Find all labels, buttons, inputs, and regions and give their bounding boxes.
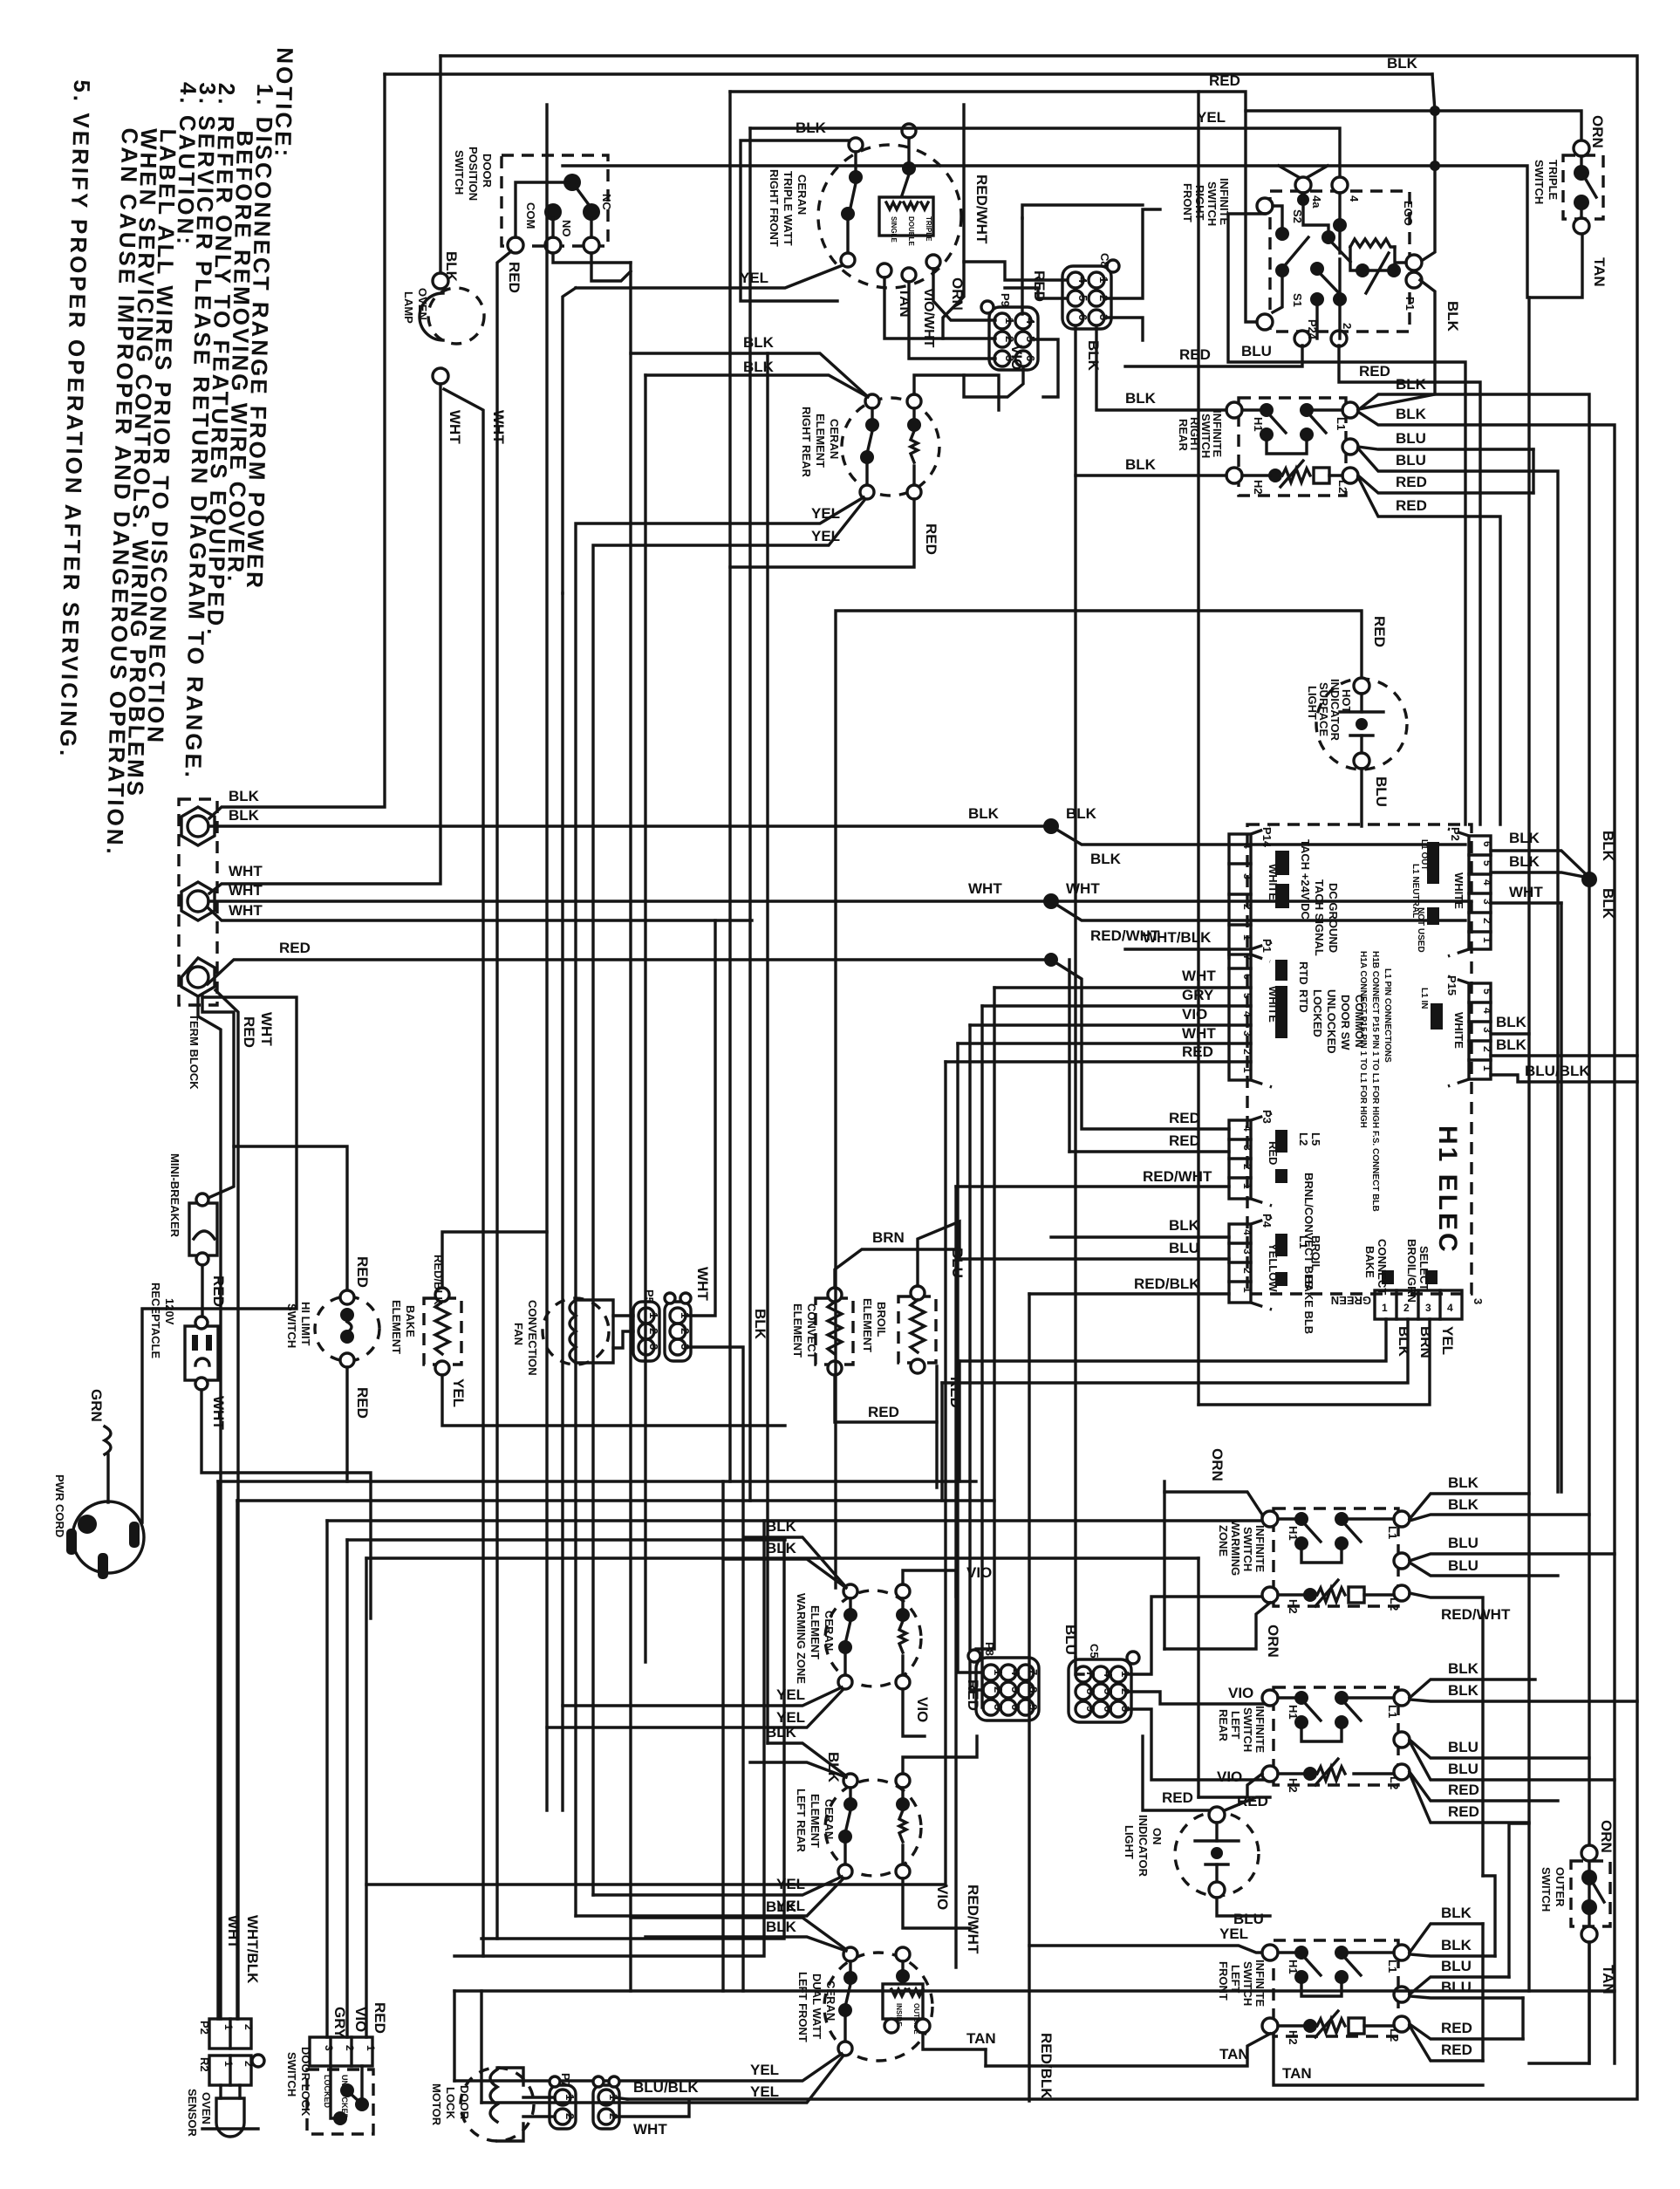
svg-text:SWITCH: SWITCH — [285, 1303, 298, 1348]
svg-text:2: 2 — [1481, 1046, 1493, 1052]
svg-text:REAR: REAR — [1177, 419, 1190, 451]
svg-text:2: 2 — [1403, 1302, 1410, 1314]
svg-text:OVEN: OVEN — [416, 288, 429, 320]
wire BLK pair into right rear element — [631, 353, 866, 395]
connector P2 — [1410, 827, 1493, 956]
svg-text:DOUBLE: DOUBLE — [907, 216, 915, 246]
svg-text:4: 4 — [1241, 1011, 1253, 1017]
svg-text:BLK: BLK — [1387, 55, 1418, 72]
wire BLK into right rear H2 — [1076, 474, 1226, 476]
svg-text:VIO: VIO — [1228, 1685, 1253, 1701]
svg-text:RED/WHT: RED/WHT — [1441, 1606, 1511, 1623]
svg-text:DUAL WATT: DUAL WATT — [810, 1974, 823, 2039]
svg-text:ELEMENT: ELEMENT — [390, 1300, 403, 1354]
svg-text:1: 1 — [1481, 937, 1493, 943]
wire WHT/BLK oven sensor drop — [236, 1501, 238, 2019]
svg-text:SINGLE: SINGLE — [890, 216, 898, 243]
svg-text:BLK: BLK — [1396, 1326, 1412, 1358]
oven sensor assembly — [186, 1915, 264, 2138]
svg-text:6: 6 — [1009, 1704, 1022, 1710]
wire GRY to P8 pin3 — [982, 1006, 983, 1707]
wire hi limit switch branch — [234, 1146, 379, 1481]
wire P4 rows — [1051, 1235, 1229, 1238]
svg-text:FRONT: FRONT — [1217, 1961, 1230, 2001]
svg-text:L2: L2 — [1336, 480, 1349, 493]
connector P5 — [633, 1289, 660, 1361]
svg-text:BLU: BLU — [1169, 1240, 1199, 1256]
svg-text:DOOR SW: DOOR SW — [1339, 995, 1352, 1050]
wire bake element top — [442, 1232, 547, 1288]
svg-text:BLK: BLK — [743, 359, 775, 375]
svg-text:CERAN: CERAN — [828, 419, 841, 459]
svg-text:L1: L1 — [1335, 417, 1348, 430]
svg-text:RED: RED — [1448, 1803, 1479, 1820]
svg-text:BLK: BLK — [766, 1724, 797, 1741]
svg-text:BLU: BLU — [1448, 1535, 1479, 1551]
ceran triple watt right front element — [768, 124, 961, 288]
svg-text:LEFT FRONT: LEFT FRONT — [796, 1972, 809, 2042]
svg-text:5: 5 — [1102, 1688, 1115, 1694]
svg-text:NC: NC — [600, 194, 613, 210]
svg-text:3: 3 — [1472, 1298, 1485, 1304]
wire TAN lower run — [1274, 2034, 1483, 2085]
svg-text:YEL: YEL — [1219, 1926, 1248, 1942]
svg-text:ON: ON — [1151, 1828, 1164, 1845]
svg-text:BLK: BLK — [752, 1309, 768, 1340]
svg-text:H2: H2 — [1287, 1599, 1300, 1614]
broil element — [861, 1248, 966, 1408]
svg-text:BAKE BLB: BAKE BLB — [1302, 1276, 1315, 1334]
wire bus vertical x740 — [644, 375, 646, 1662]
svg-text:2: 2 — [1241, 1164, 1253, 1170]
wires out left rear switch — [1410, 1679, 1535, 1698]
svg-text:BLK: BLK — [1448, 1660, 1479, 1677]
svg-text:WHT: WHT — [225, 1915, 242, 1949]
svg-text:L1: L1 — [1386, 1960, 1399, 1973]
outer switch — [1540, 1820, 1616, 1994]
svg-text:P7: P7 — [559, 2073, 572, 2087]
svg-text:BLK: BLK — [229, 807, 260, 824]
svg-text:ELEMENT: ELEMENT — [791, 1303, 804, 1358]
svg-text:BLK: BLK — [1509, 830, 1540, 846]
svg-text:BLK: BLK — [1125, 456, 1157, 473]
board green connector — [1331, 1239, 1485, 1319]
svg-text:YEL: YEL — [750, 2062, 779, 2078]
wire YEL pair bottom left front — [454, 2054, 842, 2081]
svg-text:WHITE: WHITE — [1452, 872, 1465, 909]
infinite switch right front EOD — [1181, 177, 1422, 346]
wire RED door lock run — [366, 1556, 1199, 1559]
svg-text:WHT: WHT — [447, 410, 463, 444]
svg-text:6: 6 — [1481, 841, 1493, 847]
svg-text:YEL: YEL — [750, 2083, 779, 2100]
wire WHT from C2 — [614, 2101, 689, 2117]
svg-text:RED: RED — [1359, 363, 1390, 380]
svg-text:CONVECTION: CONVECTION — [526, 1300, 539, 1376]
svg-text:INDICATOR: INDICATOR — [1328, 679, 1342, 742]
svg-text:ELEMENT: ELEMENT — [809, 1794, 822, 1848]
svg-text:5: 5 — [1009, 1686, 1022, 1693]
wire VIO to P8 pin2 — [970, 1025, 983, 1690]
svg-text:RED: RED — [1371, 616, 1388, 647]
wire RED from COM down — [497, 251, 511, 1939]
wire RED bus y1100 — [208, 960, 1051, 984]
svg-text:RED: RED — [1441, 2042, 1472, 2058]
svg-text:VIO: VIO — [1182, 1006, 1207, 1023]
wire WHT to P8 pin1 — [958, 1043, 983, 1673]
svg-text:RED: RED — [1396, 474, 1427, 490]
svg-text:2: 2 — [679, 1328, 692, 1334]
hi limit switch — [315, 1296, 379, 1361]
svg-text:L1 PIN CONNECTIONS: L1 PIN CONNECTIONS — [1383, 968, 1392, 1063]
wire BLU pair right rear P — [1358, 447, 1533, 449]
connector C1 — [665, 1293, 692, 1361]
wire RED bottom right rear — [730, 499, 914, 567]
wire WHT oven sensor run — [218, 1480, 976, 1482]
svg-text:RTD: RTD — [1297, 961, 1310, 985]
svg-text:ORN: ORN — [1598, 1820, 1615, 1853]
wire C8 pin4 left — [964, 262, 1067, 280]
wire BLK bus y947 — [208, 824, 1051, 827]
svg-text:BRNL/CONVECT BLB: BRNL/CONVECT BLB — [1302, 1173, 1315, 1289]
wire RED door lock drop — [365, 1558, 367, 2037]
wire YEL vertical x1374 — [1197, 92, 1199, 1405]
door lock motor — [430, 2068, 534, 2141]
wire bus vertical x723 — [629, 263, 632, 1991]
mini-breaker — [168, 1153, 217, 1265]
svg-text:DOOR LOCK: DOOR LOCK — [299, 2047, 312, 2117]
wire BLK drop from green connector — [958, 1361, 960, 1481]
wire VIO bottom warming zone — [903, 1689, 925, 1736]
svg-text:TAN: TAN — [966, 2030, 996, 2047]
svg-text:1: 1 — [563, 2094, 577, 2100]
svg-text:BLK: BLK — [1509, 853, 1540, 870]
svg-text:RECEPTACLE: RECEPTACLE — [149, 1283, 162, 1358]
svg-text:SWITCH: SWITCH — [1241, 1707, 1254, 1752]
svg-text:LIGHT: LIGHT — [1123, 1825, 1136, 1859]
svg-text:7: 7 — [1027, 1669, 1040, 1675]
wire C8 pin3 right — [1105, 318, 1143, 340]
wire riser x1700 — [1481, 1924, 1484, 2061]
triple switch — [1533, 115, 1608, 287]
svg-text:ORN: ORN — [1589, 115, 1606, 148]
svg-text:TAN: TAN — [1282, 2065, 1312, 2082]
wire BLK2 right rear out — [1358, 412, 1615, 2063]
svg-text:HI LIMIT: HI LIMIT — [299, 1302, 312, 1346]
svg-text:SWITCH: SWITCH — [1205, 181, 1219, 226]
svg-text:RED: RED — [965, 1679, 981, 1711]
svg-text:6: 6 — [1102, 1706, 1115, 1712]
wire YEL pair bottom left rear — [593, 1877, 842, 1895]
svg-text:H2: H2 — [1287, 2030, 1300, 2045]
svg-text:GRY: GRY — [331, 2007, 348, 2039]
wire WHT bus y1033 — [208, 900, 1472, 902]
svg-text:1: 1 — [1241, 934, 1253, 941]
svg-text:WHT/BLK: WHT/BLK — [244, 1915, 261, 1984]
svg-text:BLU/BLK: BLU/BLK — [1525, 1063, 1590, 1079]
wire vertical x899 — [481, 1540, 784, 1939]
wire WHT third from hex2 — [208, 907, 752, 920]
wire C8 pin5 left — [1005, 288, 1067, 298]
svg-text:RED: RED — [1396, 497, 1427, 514]
svg-text:4: 4 — [1348, 195, 1361, 202]
svg-text:BLU: BLU — [1396, 430, 1426, 447]
wire RED breaker to receptacle — [201, 1265, 203, 1326]
ceran element left rear — [795, 1774, 921, 1878]
wire P2 WHT — [1491, 901, 1561, 904]
wire fan to P5 — [613, 1314, 633, 1317]
connector P14 — [1229, 827, 1340, 961]
svg-text:4: 4 — [1009, 1669, 1022, 1676]
wire from NO down right — [553, 253, 631, 263]
svg-text:SWITCH: SWITCH — [1241, 1961, 1254, 2006]
wire P2 BLK pair to right — [1491, 851, 1584, 872]
wire YEL riser x552 — [480, 1991, 482, 2103]
svg-text:1: 1 — [1241, 1287, 1253, 1293]
svg-text:3: 3 — [1481, 1027, 1493, 1033]
svg-text:YEL: YEL — [811, 528, 840, 544]
wire GRY door lock run — [327, 1519, 1270, 1522]
svg-text:VIO: VIO — [352, 2007, 369, 2032]
H1 ELEC board — [1229, 824, 1493, 1334]
wire YEL bus vertical x645 — [561, 593, 563, 1810]
svg-text:3: 3 — [323, 2045, 335, 2051]
svg-text:LOCKED: LOCKED — [1311, 989, 1324, 1037]
svg-text:4a: 4a — [1310, 195, 1323, 209]
svg-text:BLK: BLK — [766, 1898, 797, 1915]
svg-text:1: 1 — [222, 2024, 235, 2030]
wire BLK into right rear H1 — [1096, 326, 1226, 410]
svg-text:LOCK: LOCK — [444, 2087, 457, 2119]
wire YEL pair bottom warming zone — [563, 1687, 842, 1706]
svg-text:4: 4 — [1241, 843, 1253, 849]
svg-text:L1 IN: L1 IN — [1419, 988, 1429, 1009]
svg-text:WHT: WHT — [490, 410, 507, 444]
svg-text:TAN: TAN — [1219, 2046, 1249, 2062]
wire BLK pair into left front — [631, 1918, 844, 1948]
svg-text:DOOR: DOOR — [458, 2085, 471, 2120]
svg-text:WHT: WHT — [229, 882, 263, 899]
svg-text:INDICATOR: INDICATOR — [1137, 1815, 1150, 1878]
wire WHT/BLK down to P2 — [215, 990, 238, 2019]
on indicator light — [1123, 1793, 1268, 1927]
svg-text:H1 ELEC: H1 ELEC — [1433, 1125, 1462, 1255]
svg-text:SWITCH: SWITCH — [285, 2052, 298, 2097]
svg-text:C5: C5 — [1088, 1644, 1101, 1659]
svg-text:BLK: BLK — [766, 1518, 797, 1535]
svg-text:7: 7 — [1084, 1671, 1097, 1677]
svg-text:L1: L1 — [1386, 1526, 1399, 1539]
wire riser x1746 — [1521, 1998, 1524, 2039]
svg-text:4: 4 — [1481, 1008, 1493, 1014]
svg-text:RED/WHT: RED/WHT — [1143, 1168, 1212, 1185]
svg-text:LEFT: LEFT — [1229, 1965, 1242, 1994]
wire bus vertical x627 — [545, 105, 548, 1810]
wire left bus BLK from border B down to term block — [209, 74, 385, 818]
svg-text:VIO: VIO — [1008, 345, 1025, 370]
svg-text:P15: P15 — [1445, 975, 1458, 995]
wire TAN into left front switch H2 — [986, 2034, 1270, 2066]
svg-text:RED/WHT: RED/WHT — [973, 174, 990, 244]
svg-text:BLK: BLK — [1448, 1474, 1479, 1491]
svg-text:4: 4 — [1481, 879, 1493, 886]
wire BLU from left terminal — [1228, 214, 1465, 824]
svg-text:BLU: BLU — [1396, 452, 1426, 469]
svg-text:LIGHT: LIGHT — [1306, 686, 1319, 720]
connector C8 — [1062, 253, 1119, 329]
svg-text:RED: RED — [279, 940, 311, 956]
svg-text:1: 1 — [222, 2061, 235, 2067]
svg-text:1: 1 — [1481, 1065, 1493, 1071]
wire from EOD P1 down BLK — [1355, 280, 1435, 410]
svg-text:SWITCH: SWITCH — [1540, 1867, 1553, 1912]
svg-text:7: 7 — [1241, 954, 1253, 961]
svg-text:L2: L2 — [1388, 1776, 1401, 1789]
node y190/4a merge — [1279, 166, 1328, 180]
svg-text:H1B CONNECT P15 PIN 1 TO L1 F: H1B CONNECT P15 PIN 1 TO L1 FOR HIGH F.S… — [1370, 951, 1380, 1212]
power cord — [53, 1389, 144, 1579]
svg-text:WHT: WHT — [210, 1396, 227, 1430]
svg-text:SWITCH: SWITCH — [453, 150, 466, 195]
wire GRY door lock drop — [325, 1521, 328, 2037]
svg-text:L1: L1 — [1297, 1235, 1310, 1248]
svg-text:BLK: BLK — [229, 788, 260, 804]
svg-text:1: 1 — [365, 2045, 377, 2051]
wire VIO door lock run — [347, 1538, 785, 1541]
svg-text:BRN: BRN — [872, 1229, 905, 1246]
svg-text:L2: L2 — [1297, 1132, 1310, 1146]
svg-text:WHT: WHT — [633, 2121, 667, 2138]
wire WHT/BLK oven sensor run — [237, 1499, 994, 1502]
wire ORN right side — [1164, 1492, 1270, 1519]
wire on indicator BLU — [1217, 1898, 1270, 1916]
svg-text:WHITE: WHITE — [1452, 1012, 1465, 1049]
svg-text:NO: NO — [560, 220, 573, 237]
svg-text:RIGHT REAR: RIGHT REAR — [800, 407, 813, 478]
svg-text:9: 9 — [1027, 1704, 1040, 1710]
svg-text:WHT/BLK: WHT/BLK — [1143, 929, 1212, 946]
wire BLK vertical x1645 top — [1420, 74, 1435, 262]
svg-text:3: 3 — [647, 1344, 660, 1350]
wire VIO top right rear — [914, 375, 999, 410]
svg-text:RED: RED — [241, 1016, 257, 1048]
wire top border B — [385, 72, 1432, 75]
svg-text:120V: 120V — [163, 1298, 176, 1325]
svg-text:YEL: YEL — [776, 1876, 805, 1892]
wire BLU from broil element — [918, 1221, 960, 1286]
svg-text:RED: RED — [1179, 346, 1211, 363]
wire TAN riser — [984, 2049, 987, 2066]
wire YEL bottom of right front element — [576, 265, 843, 288]
svg-text:BLU: BLU — [1373, 776, 1390, 807]
connector P9 — [981, 293, 1038, 370]
svg-text:BLU: BLU — [1448, 1761, 1479, 1777]
svg-text:RTD: RTD — [1297, 989, 1310, 1013]
svg-text:3: 3 — [1241, 873, 1253, 879]
svg-text:COM: COM — [524, 202, 537, 229]
svg-text:BLK: BLK — [1441, 1905, 1472, 1921]
svg-text:BLK: BLK — [766, 1540, 797, 1556]
svg-text:RED: RED — [1237, 1793, 1268, 1809]
left bottom staircase bundle — [218, 1481, 1270, 2037]
svg-text:RED: RED — [1169, 1132, 1200, 1149]
svg-text:VIO: VIO — [914, 1697, 931, 1722]
svg-text:BLK: BLK — [1600, 888, 1616, 920]
svg-text:9: 9 — [1084, 1706, 1097, 1712]
svg-text:BLK: BLK — [1066, 805, 1097, 822]
svg-text:TAN: TAN — [1591, 257, 1608, 287]
svg-text:VIO: VIO — [934, 1885, 951, 1910]
svg-text:RED: RED — [354, 1256, 371, 1288]
wire YEL riser x521 — [453, 1991, 455, 2081]
svg-text:2: 2 — [1341, 323, 1354, 329]
svg-text:MOTOR: MOTOR — [430, 2083, 443, 2126]
ceran dual watt left front — [796, 1947, 932, 2061]
svg-text:P2: P2 — [198, 2021, 211, 2035]
svg-text:BLU: BLU — [1062, 1625, 1079, 1655]
svg-text:BLK: BLK — [743, 334, 775, 351]
svg-text:TERM BLOCK: TERM BLOCK — [188, 1014, 201, 1090]
svg-text:WHT: WHT — [229, 863, 263, 879]
svg-text:WARMING: WARMING — [1229, 1520, 1242, 1576]
svg-text:BLK: BLK — [1600, 831, 1616, 862]
svg-text:LAMP: LAMP — [402, 291, 415, 324]
wire vertical x1753 — [1527, 298, 1530, 1991]
svg-text:VIO: VIO — [1217, 1768, 1242, 1785]
svg-text:RED: RED — [372, 2002, 388, 2034]
svg-text:NOT USED: NOT USED — [1416, 907, 1425, 953]
door lock switch — [285, 2002, 388, 2134]
svg-text:BROIL: BROIL — [875, 1302, 888, 1337]
svg-text:2: 2 — [992, 1686, 1005, 1693]
svg-text:BLU: BLU — [1448, 1739, 1479, 1755]
wire BLK top of right front element — [741, 140, 850, 301]
wire BLK door switch to lamp — [439, 56, 441, 273]
svg-text:OUTER: OUTER — [1554, 1867, 1567, 1907]
node BLK junction on bus — [1043, 818, 1059, 834]
svg-text:TAN: TAN — [897, 288, 913, 318]
svg-text:WARMING ZONE: WARMING ZONE — [795, 1593, 808, 1684]
svg-text:CERAN: CERAN — [823, 1799, 836, 1839]
wire VIO top warming zone — [903, 1570, 956, 1597]
svg-text:4: 4 — [1241, 1125, 1253, 1132]
svg-text:BLK: BLK — [1090, 851, 1122, 867]
svg-text:2: 2 — [344, 2045, 356, 2051]
svg-text:SELECT: SELECT — [1417, 1246, 1431, 1290]
infinite switch right rear — [1177, 398, 1358, 496]
wire YEL pair bottom right rear — [576, 497, 864, 1916]
svg-text:1: 1 — [647, 1312, 660, 1318]
svg-text:RED: RED — [1441, 2020, 1472, 2036]
svg-text:POSITION: POSITION — [467, 147, 480, 201]
svg-text:RED: RED — [1448, 1782, 1479, 1798]
wire BLK pair into left rear — [768, 1743, 844, 1775]
wire ORN from element to P9 — [933, 269, 995, 320]
svg-text:3: 3 — [1425, 1302, 1431, 1314]
svg-text:R2: R2 — [198, 2057, 211, 2072]
svg-text:GREEN: GREEN — [1331, 1294, 1371, 1307]
wire long horizontal y2282 — [454, 1989, 1615, 1992]
svg-text:INFINITE: INFINITE — [1253, 1706, 1267, 1753]
wire WHT lamp down to term block — [209, 384, 440, 893]
svg-text:BLU/BLK: BLU/BLK — [633, 2079, 699, 2096]
wire from P9 pin6 down left — [964, 367, 1023, 397]
oven lamp — [402, 273, 484, 384]
bake element — [390, 1255, 467, 1407]
wire from EOD P24 down RED — [1125, 345, 1302, 366]
svg-text:RED: RED — [210, 1276, 227, 1307]
notice text block — [53, 43, 298, 860]
